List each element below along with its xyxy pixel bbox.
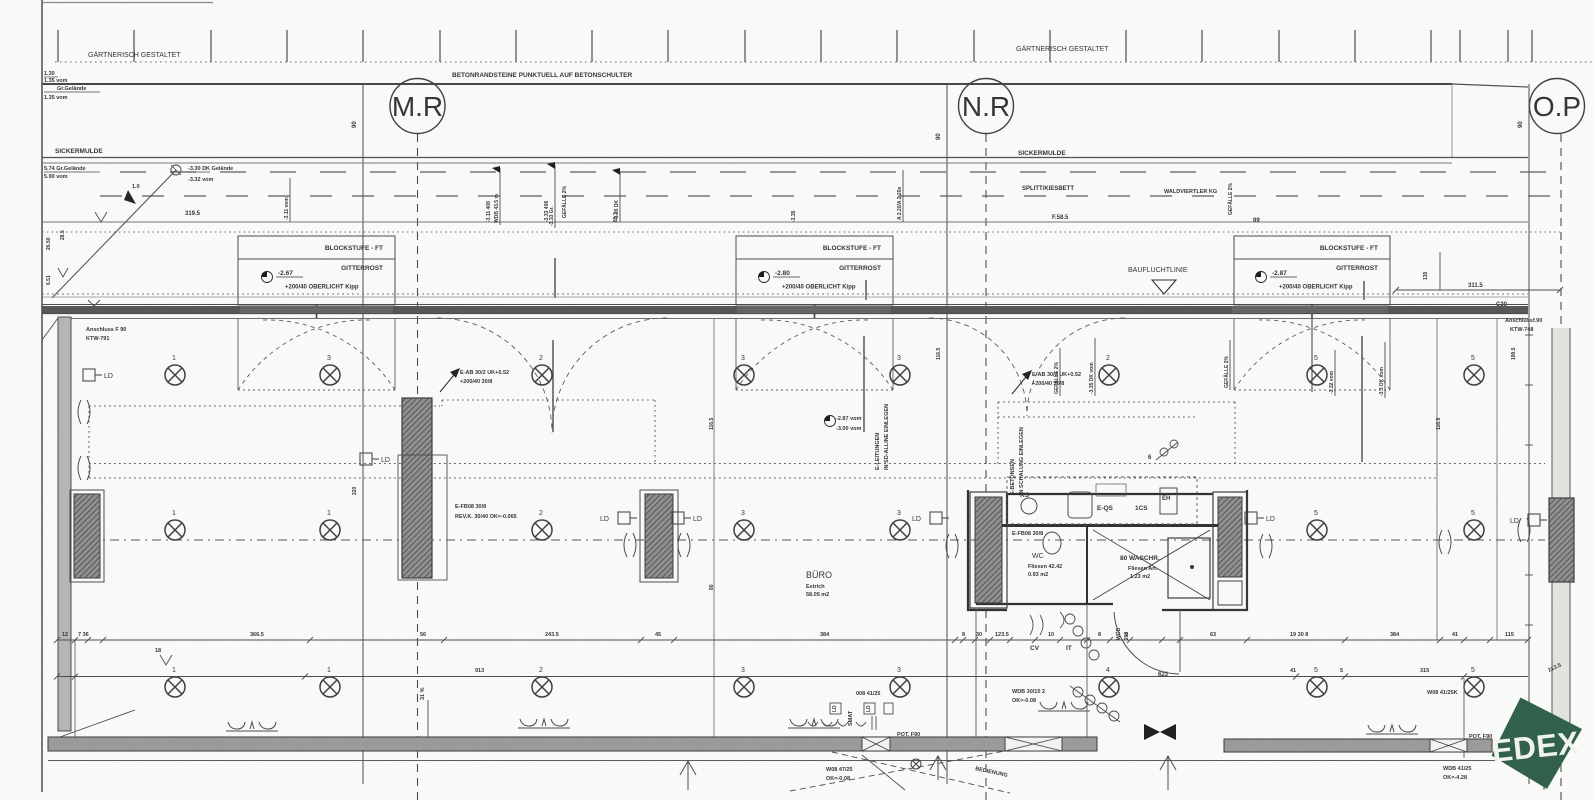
grid axis O.P dashed line	[1560, 134, 1562, 800]
right wall ticks	[1525, 335, 1533, 625]
light 1	[165, 520, 185, 540]
dotted lines above wall	[42, 293, 1528, 295]
suspended ceiling dotted zones	[89, 400, 1545, 478]
grid axis O.P circle	[1530, 79, 1585, 134]
bauflucht triangle	[1152, 280, 1176, 294]
scan noise overlay	[0, 0, 1, 1]
LD outlet	[83, 369, 102, 381]
light 3	[734, 365, 754, 385]
light 1	[165, 365, 185, 385]
light 2	[532, 677, 552, 697]
wob 30/15 stack left	[420, 687, 426, 700]
light 5	[1307, 677, 1327, 697]
LD outlet	[360, 453, 379, 465]
window band thin lines	[240, 308, 1388, 311]
bottom exterior wall band	[48, 737, 1097, 751]
light 3	[734, 520, 754, 540]
light 1	[165, 677, 185, 697]
door bay below box 1	[238, 318, 395, 390]
blockstufe box 3	[1234, 236, 1390, 305]
light 1	[320, 520, 340, 540]
level flag -2.67	[262, 272, 273, 283]
mid dash-dot line	[89, 539, 1545, 541]
LD outlet	[930, 512, 949, 524]
door arcs into room	[437, 318, 1125, 433]
corner arrow	[60, 710, 135, 737]
bowtie vent	[1144, 724, 1176, 740]
band x-boxes	[862, 737, 1467, 752]
tick flags	[492, 162, 620, 175]
small fork symbols bottom	[680, 756, 1552, 790]
wob annotation	[1012, 689, 1045, 704]
door bay below box 2	[736, 318, 893, 390]
light 5	[1464, 365, 1484, 385]
light 2	[532, 365, 552, 385]
grid axis O.P solid line	[1528, 84, 1530, 784]
level flag -2.80	[759, 272, 770, 283]
dim 311.5	[1396, 289, 1560, 291]
main top wall band	[42, 304, 1528, 306]
sill line above wall	[42, 296, 1528, 298]
left dim marks	[160, 655, 172, 665]
level notes top-left	[44, 71, 86, 101]
pillar annotation	[455, 504, 517, 520]
light 3	[890, 365, 910, 385]
grid axis N.R solid line	[946, 84, 948, 784]
light 1	[320, 677, 340, 697]
level flag -2.87	[1256, 272, 1267, 283]
toilet	[1043, 532, 1061, 554]
blockstufe box 1	[238, 236, 395, 305]
top sheet edge	[42, 2, 213, 4]
bay3 door leaf	[1311, 318, 1313, 392]
slope arrow	[124, 190, 136, 204]
wc pillar P4	[970, 492, 1007, 608]
wc top heavy wall	[1001, 524, 1218, 527]
EH fixture	[1160, 488, 1177, 514]
bottom diagonal marks	[790, 750, 1010, 793]
light 5	[1464, 677, 1484, 697]
fence tick marks	[58, 30, 1532, 62]
dimension row 1	[57, 639, 1528, 641]
interior joint line x1497	[1496, 318, 1498, 640]
cable annotation at 452	[440, 370, 458, 392]
ceiling joint symbols	[226, 722, 278, 731]
left sheet border	[41, 0, 43, 792]
pillar P2 tall	[402, 398, 432, 578]
level annotation clusters	[289, 178, 291, 222]
right exterior wall	[1552, 328, 1570, 742]
interior joint line x1437	[1436, 318, 1438, 640]
sickermulde band	[42, 157, 1528, 159]
light 3	[890, 520, 910, 540]
drain circle	[171, 165, 181, 175]
grid axis M.R dashed line	[417, 134, 419, 800]
wc pillar P5	[1213, 492, 1247, 610]
pillar P1	[70, 490, 104, 582]
shower tray	[1168, 538, 1210, 598]
grid axis M.R circle	[390, 79, 445, 134]
bay centre mullions	[317, 305, 1313, 319]
LD outlet	[1528, 514, 1547, 526]
wc partition	[1086, 527, 1088, 604]
door bay below box 3	[1234, 318, 1390, 390]
under-wall line	[48, 760, 1528, 762]
small valve circle	[911, 759, 921, 769]
interior joint line x714	[713, 318, 715, 737]
light 2	[1099, 365, 1119, 385]
light 5	[1307, 365, 1327, 385]
light 3	[320, 365, 340, 385]
LD outlet	[1245, 512, 1264, 524]
light 5	[1464, 520, 1484, 540]
light 3	[890, 677, 910, 697]
KS fixture	[1021, 498, 1037, 514]
dotted planting line	[55, 61, 1593, 63]
left exterior wall	[42, 318, 58, 340]
light 3	[734, 677, 754, 697]
blockstufe box 2	[736, 236, 893, 305]
gravel dashes	[120, 171, 1560, 173]
pillar P3	[640, 490, 678, 582]
right wall pillar	[1549, 498, 1574, 582]
wasch room cross	[1093, 530, 1210, 600]
LD outlet	[618, 512, 637, 524]
fixtures dashed zone	[1007, 477, 1197, 524]
grid axis N.R dashed line	[985, 134, 987, 800]
wall brackets	[78, 400, 90, 424]
slope diagonal top-left	[52, 170, 176, 298]
ground line	[42, 83, 1452, 85]
wc block outer walls	[968, 490, 1247, 610]
grid axis N.R circle	[959, 79, 1014, 134]
edex logo green square	[1492, 698, 1583, 790]
dimension row 2	[57, 676, 1528, 678]
sink fixture	[1068, 492, 1092, 518]
small fixture cluster right zone	[1156, 440, 1178, 460]
light 5	[1307, 520, 1327, 540]
LD outlet	[672, 512, 691, 524]
cable annotation at 1024	[1012, 372, 1030, 394]
grid axis M.R solid line	[362, 84, 364, 784]
left small marks	[58, 212, 107, 312]
light 4	[1099, 677, 1119, 697]
light 2	[532, 520, 552, 540]
wc door arc	[1114, 612, 1179, 674]
window mullions	[553, 258, 1364, 462]
